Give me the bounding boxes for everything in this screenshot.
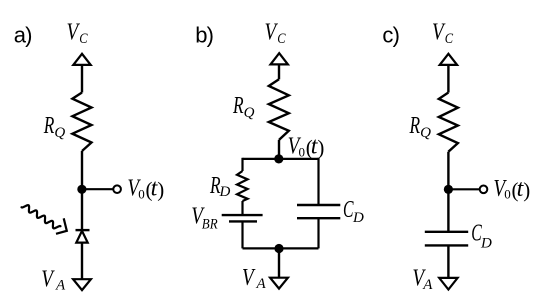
- wire: [447, 152, 449, 190]
- wire to output: [82, 188, 113, 190]
- right branch wire: [317, 158, 319, 205]
- top rail wire: [243, 158, 319, 160]
- svg-text:C: C: [445, 31, 454, 47]
- wire: [241, 201, 243, 214]
- label RD: [209, 173, 230, 200]
- battery VBR long plate: [222, 214, 263, 216]
- label VC (c): [432, 19, 454, 47]
- svg-text:c): c): [382, 22, 399, 47]
- wire: [81, 65, 83, 93]
- svg-text:D: D: [352, 210, 364, 226]
- light arrow head: [56, 218, 67, 234]
- label VA (c): [412, 266, 433, 293]
- svg-text:C: C: [277, 31, 286, 47]
- VA ground arrow (b): [270, 278, 288, 289]
- node junction dot top (b): [274, 154, 283, 163]
- svg-text:a): a): [14, 22, 32, 47]
- bottom rail wire: [243, 247, 319, 249]
- label RQ (b): [232, 93, 254, 121]
- node junction dot bottom (b): [274, 244, 283, 253]
- svg-text:V: V: [265, 19, 279, 45]
- resistor RQ (c): [439, 93, 458, 152]
- svg-text:BR: BR: [202, 217, 218, 233]
- resistor RD: [237, 171, 248, 201]
- svg-text:V: V: [432, 19, 446, 45]
- svg-text:V: V: [67, 19, 81, 45]
- VC supply arrow (a): [73, 54, 90, 65]
- svg-text:A: A: [256, 276, 267, 292]
- left branch wire: [241, 158, 243, 171]
- wire: [447, 65, 449, 93]
- svg-text:): ): [523, 178, 530, 202]
- svg-text:R: R: [409, 113, 421, 139]
- label VA (a): [41, 267, 66, 294]
- label VBR: [191, 204, 217, 233]
- wire: [241, 221, 243, 248]
- output terminal circle (a): [113, 185, 121, 193]
- capacitor CD top plate (b): [297, 204, 340, 206]
- wire: [278, 140, 280, 159]
- wire: [81, 189, 83, 229]
- label V0(t) (b): [288, 134, 325, 160]
- svg-text:): ): [317, 136, 324, 160]
- svg-text:V: V: [41, 267, 55, 293]
- label CD (b): [343, 197, 364, 226]
- svg-text:A: A: [422, 277, 433, 293]
- svg-text:Q: Q: [54, 125, 65, 141]
- wire: [447, 189, 449, 232]
- output terminal circle (c): [480, 186, 488, 194]
- svg-text:): ): [157, 178, 164, 202]
- label VA (b): [242, 265, 267, 292]
- battery VBR short plate: [229, 220, 257, 222]
- VA ground arrow (c): [439, 278, 457, 290]
- svg-text:Q: Q: [420, 125, 431, 141]
- photodiode D1 triangle: [76, 231, 87, 243]
- wire: [317, 218, 319, 248]
- light arrow squiggle: [22, 205, 61, 228]
- label V0(t) (c): [493, 176, 530, 202]
- resistor RQ (b): [269, 79, 289, 140]
- svg-text:D: D: [219, 184, 231, 200]
- resistor RQ (a): [72, 93, 91, 152]
- svg-text:C: C: [79, 31, 88, 47]
- capacitor CD top plate (c): [425, 231, 468, 233]
- label RQ (c): [409, 113, 431, 141]
- photodiode D1 cathode bar: [76, 229, 90, 231]
- wire: [447, 245, 449, 278]
- svg-text:0: 0: [138, 186, 145, 201]
- VC supply arrow (c): [440, 54, 457, 65]
- VA ground arrow (a): [73, 279, 91, 290]
- label V0(t) (a): [127, 175, 164, 201]
- capacitor CD bottom plate (c): [425, 244, 468, 246]
- label VC (b): [265, 19, 287, 47]
- label CD (c): [471, 221, 492, 252]
- wire: [278, 64, 280, 79]
- svg-text:A: A: [55, 278, 66, 294]
- wire to output: [448, 188, 479, 190]
- wire: [81, 243, 83, 280]
- label VC (a): [67, 19, 89, 47]
- node junction dot (c): [444, 185, 453, 194]
- svg-text:Q: Q: [244, 105, 255, 121]
- svg-text:0: 0: [299, 144, 306, 159]
- svg-text:R: R: [232, 93, 244, 119]
- capacitor CD bottom plate (b): [297, 217, 340, 219]
- svg-text:D: D: [480, 236, 492, 252]
- svg-text:V: V: [242, 265, 256, 291]
- node junction dot (a): [77, 185, 86, 194]
- svg-text:b): b): [195, 22, 213, 47]
- svg-text:0: 0: [504, 187, 511, 202]
- wire: [278, 248, 280, 277]
- svg-text:R: R: [43, 113, 55, 139]
- label RQ (a): [43, 113, 65, 141]
- VC supply arrow (b): [271, 53, 288, 64]
- wire: [81, 151, 83, 189]
